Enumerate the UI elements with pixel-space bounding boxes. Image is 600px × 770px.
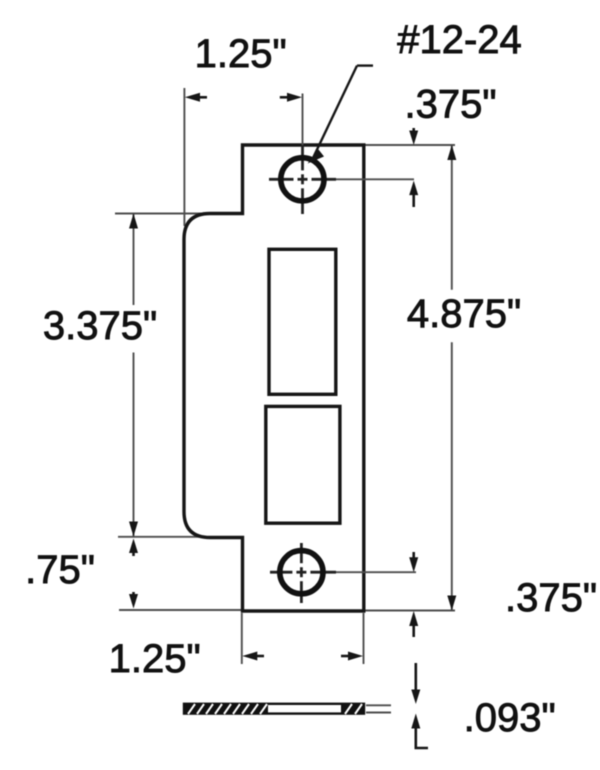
dim 1.25 top: right arrow bbox=[280, 93, 302, 102]
dim 1.25 bottom: left arrow bbox=[242, 652, 264, 661]
svg-text:1.25": 1.25" bbox=[109, 637, 201, 681]
extension line: plate bottom edge extended right bbox=[364, 610, 455, 612]
svg-text:.75": .75" bbox=[25, 548, 95, 592]
extension line: left edge below plate (bottom 1.25) bbox=[241, 613, 243, 664]
svg-text:1.25": 1.25" bbox=[195, 32, 287, 76]
plate outline bbox=[184, 145, 364, 611]
leader line from #12-24 label to top hole bbox=[313, 66, 373, 158]
dim 1.25 bottom: right arrow bbox=[341, 652, 363, 661]
extension lines from side view to .093 dim bbox=[366, 705, 391, 712]
bottom hole centerline vertical bbox=[300, 543, 303, 603]
svg-text:.375": .375" bbox=[505, 576, 597, 620]
extension line: plate top edge extended right bbox=[364, 144, 455, 146]
latch cutout upper bbox=[269, 249, 336, 394]
bottom hole centerline horizontal bbox=[270, 571, 416, 574]
top screw hole bbox=[281, 158, 324, 201]
dim 1.25 top: left arrow bbox=[185, 93, 207, 102]
leader arrowhead bbox=[308, 150, 325, 164]
dim 4.875: bottom arrow bbox=[447, 596, 456, 611]
dim .093: upper arrow bbox=[411, 663, 420, 704]
dim .75: bottom arrow (points down at plate bottom) bbox=[129, 592, 138, 609]
cross-section side view bar bbox=[184, 704, 364, 714]
svg-text:4.875": 4.875" bbox=[407, 292, 521, 336]
dim 4.875: top arrow bbox=[447, 145, 456, 160]
extension line: lip top edge extended left bbox=[115, 213, 213, 215]
top hole centerline horizontal bbox=[269, 178, 414, 181]
dim .375 top: upper arrow bbox=[409, 128, 418, 145]
dim 4.875: line bbox=[451, 145, 453, 611]
dim .375 bottom: upper arrow (points down at hole centerline) bbox=[409, 552, 418, 572]
svg-text:.093": .093" bbox=[464, 696, 556, 740]
dim 3.375: line bbox=[133, 214, 135, 537]
dim .75: top arrow (points up at lip bottom) bbox=[129, 539, 138, 557]
extension line: top 1.25 left (above lip) bbox=[183, 88, 185, 226]
top hole centerline vertical bbox=[302, 94, 304, 215]
dim .093: lower arrow with tail bbox=[411, 714, 428, 749]
dim .375 top: lower arrow bbox=[409, 181, 418, 207]
dim 3.375: bottom arrow bbox=[129, 522, 138, 537]
svg-text:#12-24: #12-24 bbox=[397, 18, 522, 62]
extension line: lip bottom edge extended left bbox=[118, 536, 216, 538]
dim .375 bottom: lower arrow (points up at plate bottom) bbox=[409, 611, 418, 637]
extension line: right edge below plate (bottom 1.25) bbox=[363, 613, 365, 664]
svg-text:.375": .375" bbox=[404, 83, 496, 127]
dim 3.375: top arrow bbox=[129, 214, 138, 229]
bottom screw hole bbox=[280, 551, 323, 594]
svg-text:3.375": 3.375" bbox=[43, 304, 157, 348]
latch cutout lower bbox=[266, 406, 340, 523]
extension line: plate bottom edge extended left bbox=[119, 609, 243, 611]
